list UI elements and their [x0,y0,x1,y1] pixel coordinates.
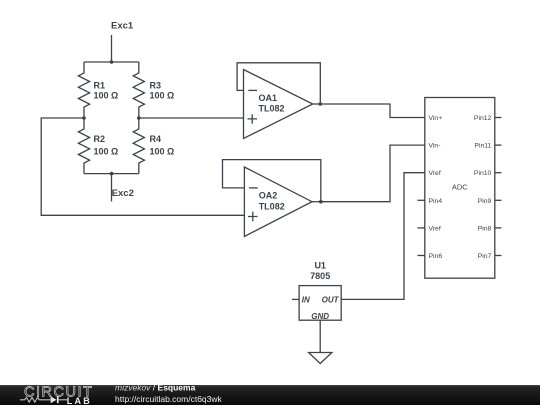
svg-text:100 Ω: 100 Ω [150,146,175,156]
svg-text:Pin6: Pin6 [429,253,443,260]
wire OA1 feedback loop [237,63,320,104]
junction OA1 output node [319,102,323,106]
svg-text:Vref: Vref [429,225,441,232]
junction bridge top node [110,60,114,64]
pin Pin7 stub [495,255,502,257]
pin Pin8 stub [495,227,502,229]
wire OA2 output stub [312,201,321,203]
wire 7805 OUT to ADC Vref [341,173,425,300]
svg-text:OA2: OA2 [259,191,278,201]
pin Vref2 stub [418,227,425,229]
junction bridge mid-left node [82,116,86,120]
svg-text:IN: IN [302,295,310,304]
junction OA2 output node [319,200,323,204]
svg-text:R3: R3 [150,81,162,91]
pin Pin10 stub [495,172,502,174]
pin Pin4 stub [418,199,425,201]
resistor R4 [133,118,174,174]
wire bridge top rail [84,61,139,63]
wire bridge mid-left to OA2 plus input [41,118,244,215]
regulator U1 7805 [299,261,341,321]
svg-text:ADC: ADC [452,183,468,192]
resistor R2 [78,118,118,174]
wire Exc2 stub [111,174,113,202]
wire Exc1 stub [111,35,113,62]
op-amp OA2 [244,167,312,236]
pin Pin6 stub [418,255,425,257]
wire bridge mid-right to OA1 plus input [139,117,244,119]
logo waveform [20,397,67,402]
svg-text:TL082: TL082 [259,202,285,212]
resistor R3 [133,62,174,118]
svg-text:100 Ω: 100 Ω [94,146,119,156]
ground [309,353,332,364]
svg-text:Pin11: Pin11 [474,143,491,150]
wire OA2 output to ADC Vin- [321,145,425,202]
wire OA1 output stub [313,103,321,105]
svg-text:100 Ω: 100 Ω [150,90,175,100]
svg-text:7805: 7805 [310,271,330,281]
junction bridge bottom node [110,172,114,176]
svg-text:Pin8: Pin8 [478,225,492,232]
svg-text:Pin12: Pin12 [474,115,492,122]
svg-text:OUT: OUT [322,295,340,304]
pin Pin11 stub [495,144,502,146]
svg-text:U1: U1 [314,261,326,271]
pin Pin12 stub [495,117,502,119]
resistor R1 [78,62,118,118]
svg-text:Pin10: Pin10 [474,170,492,177]
svg-text:R1: R1 [94,81,106,91]
wire OA2 feedback loop [223,160,321,202]
svg-text:GND: GND [311,312,329,321]
svg-text:Exc1: Exc1 [111,20,134,31]
wire OA1 output to ADC Vin+ [320,104,425,118]
junction bridge mid-right node [137,116,141,120]
svg-text:Pin7: Pin7 [478,253,492,260]
footer bar [0,385,540,405]
svg-text:OA1: OA1 [259,93,278,103]
op-amp OA1 [244,70,313,139]
pin Pin9 stub [495,199,502,201]
svg-text:Exc2: Exc2 [112,188,134,199]
svg-text:Vin-: Vin- [429,143,441,150]
logo play symbol [51,396,57,403]
pin IN stub [292,298,299,300]
svg-text:Vin+: Vin+ [429,115,443,122]
svg-text:R4: R4 [150,134,162,144]
ADC U2 [425,98,495,279]
pin GND stub / wire to ground [319,320,321,352]
svg-text:TL082: TL082 [259,104,285,114]
svg-text:100 Ω: 100 Ω [94,90,119,100]
svg-text:Pin4: Pin4 [429,198,443,205]
svg-text:Pin9: Pin9 [478,198,492,205]
wire bridge bottom rail [84,173,139,175]
svg-text:Vref: Vref [429,170,441,177]
svg-text:R2: R2 [94,134,106,144]
